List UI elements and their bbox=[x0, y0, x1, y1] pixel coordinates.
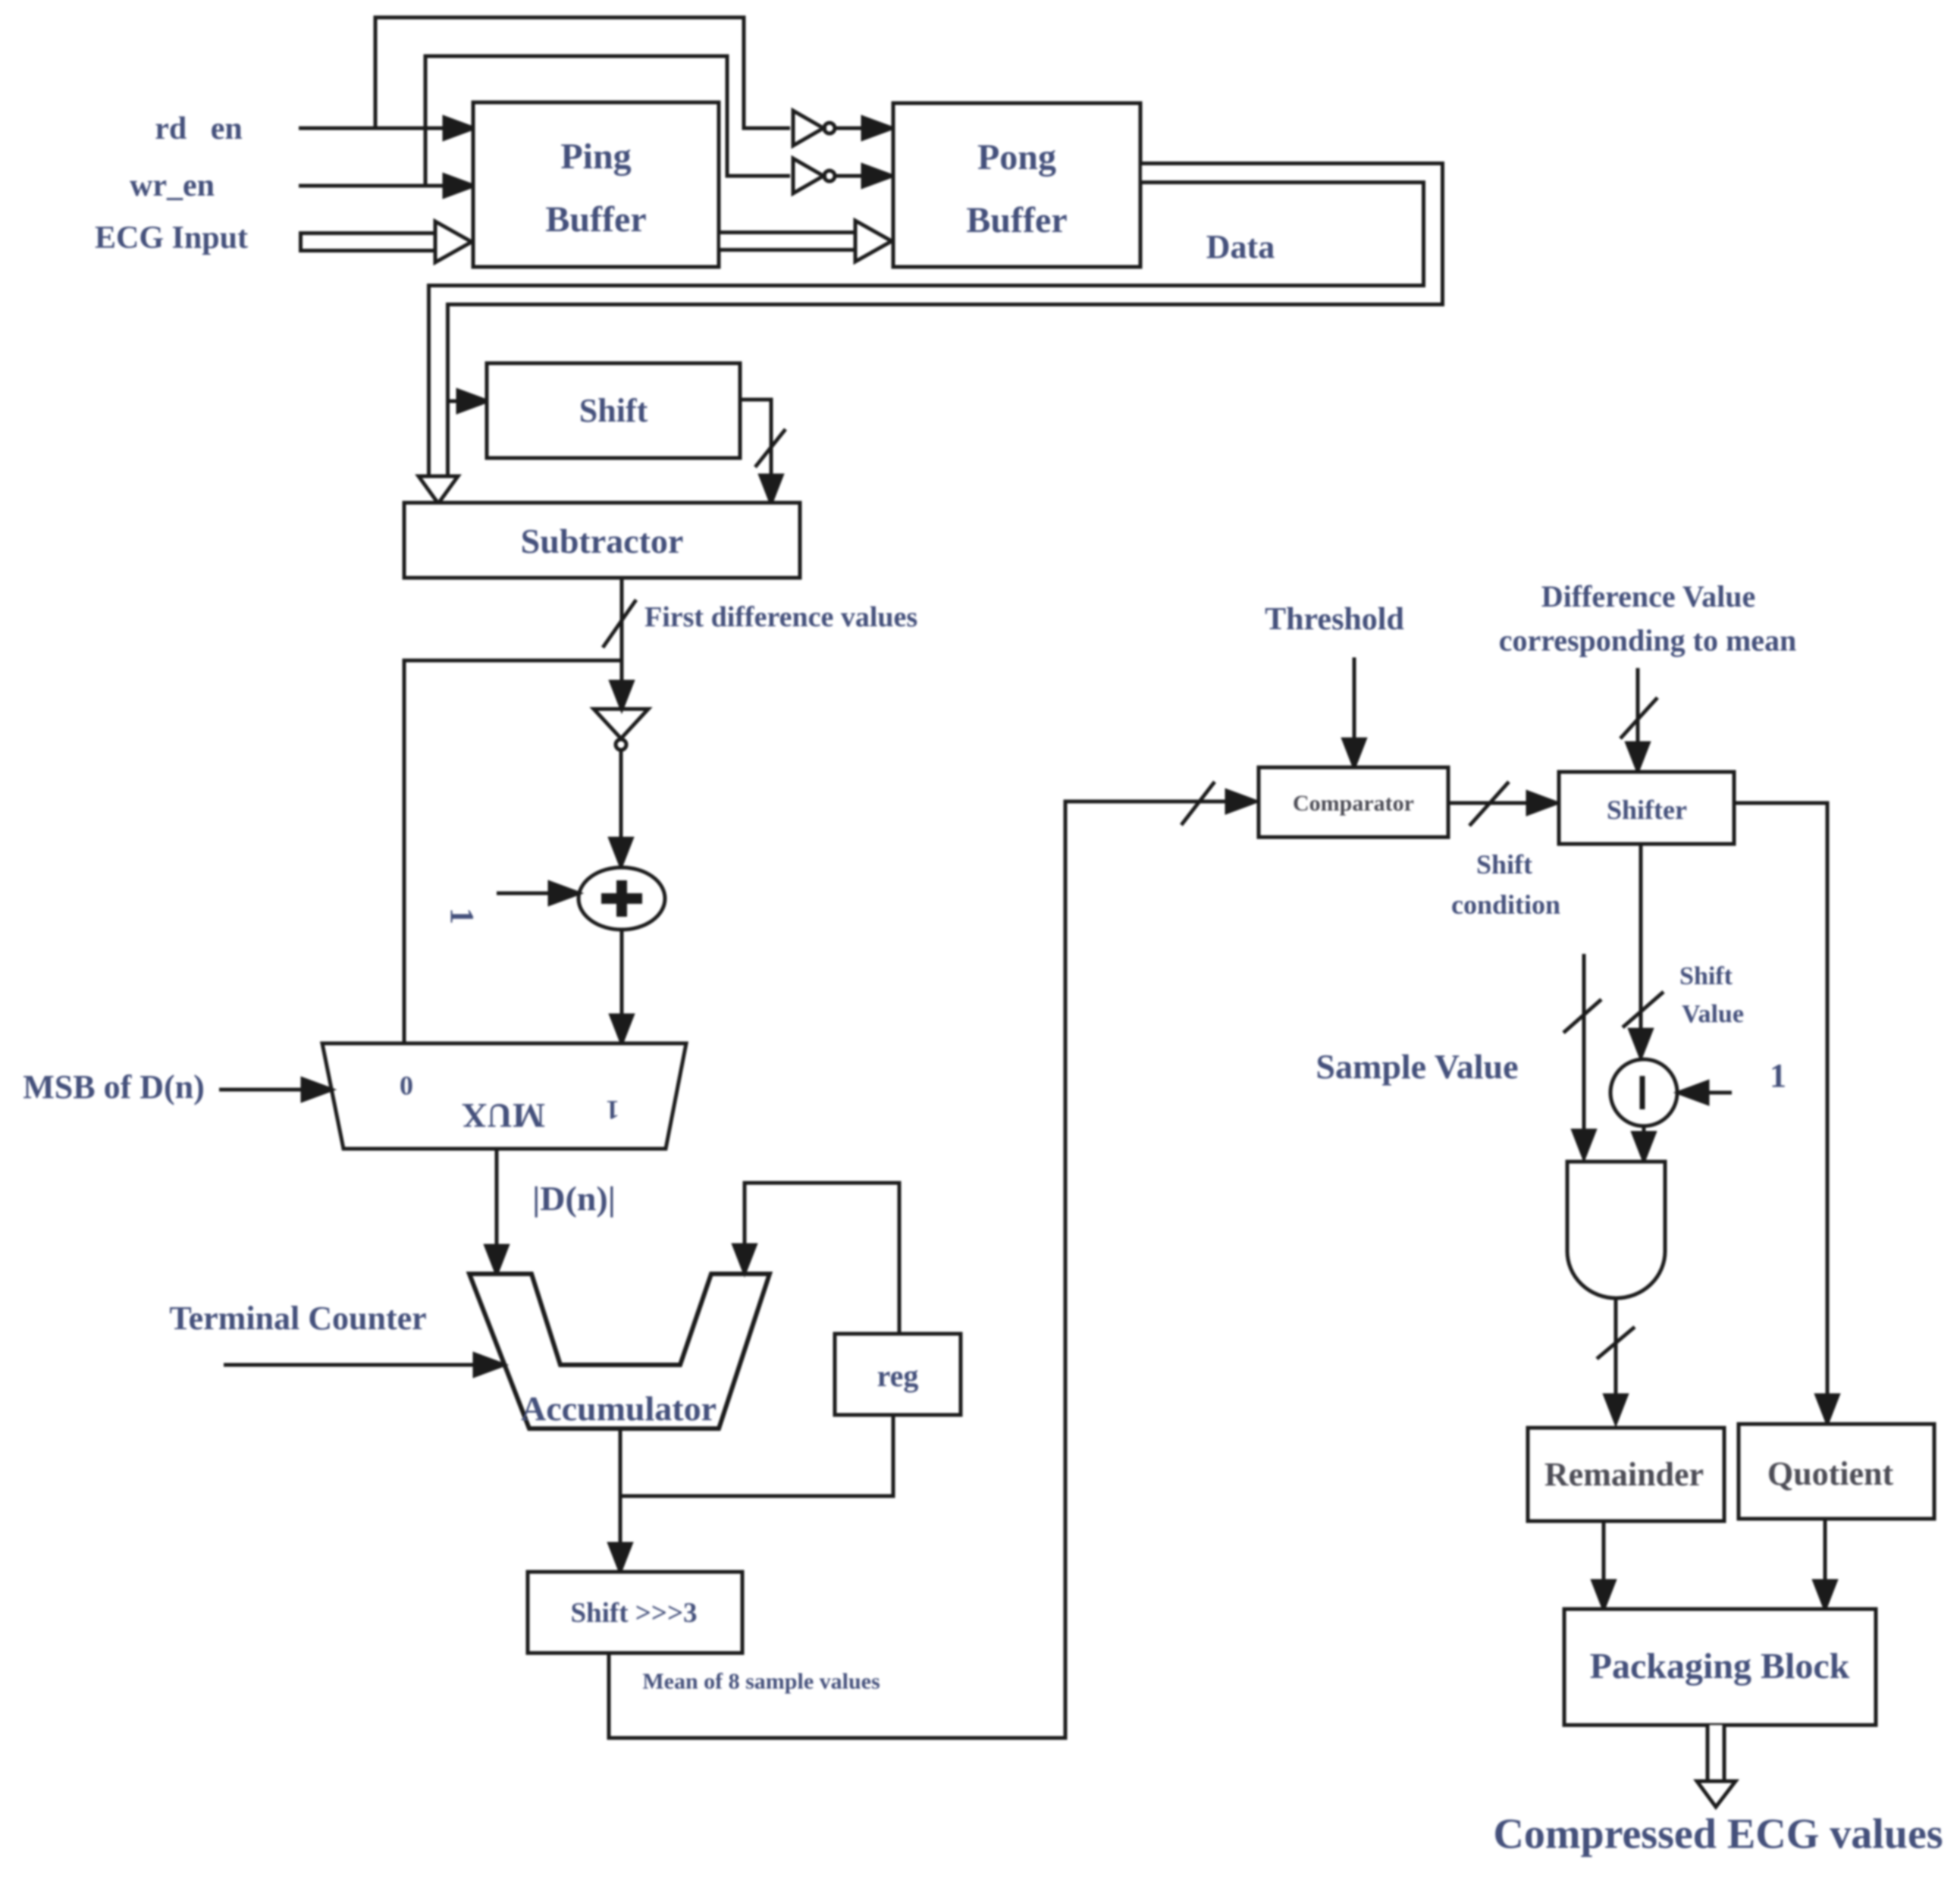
wire inverter3 to adder bbox=[610, 750, 632, 866]
wire Threshold into Comparator bbox=[1344, 657, 1365, 767]
svg-text:Shifter: Shifter bbox=[1607, 795, 1687, 825]
svg-text:Threshold: Threshold bbox=[1265, 602, 1404, 637]
inverter U1 bbox=[793, 111, 835, 146]
svg-text:Buffer: Buffer bbox=[545, 199, 646, 240]
svg-text:Terminal Counter: Terminal Counter bbox=[169, 1300, 426, 1337]
wire MSB select into MUX bbox=[219, 1079, 331, 1100]
svg-text:Sample Value: Sample Value bbox=[1316, 1047, 1518, 1086]
wire Subtractor output (first difference values) bbox=[603, 578, 636, 709]
svg-text:0: 0 bbox=[400, 1071, 413, 1101]
block Shift bbox=[487, 363, 740, 458]
svg-text:Mean of 8 sample values: Mean of 8 sample values bbox=[642, 1669, 880, 1694]
svg-text:First difference values: First difference values bbox=[644, 601, 917, 633]
block Subtractor bbox=[404, 503, 800, 578]
wire adder to MUX input 1 bbox=[611, 930, 632, 1043]
inverter U2 bbox=[793, 158, 835, 193]
svg-text:Accumulator: Accumulator bbox=[521, 1389, 717, 1428]
svg-text:Difference Value: Difference Value bbox=[1541, 579, 1756, 613]
wire inverter1 to Pong Buffer bbox=[835, 118, 892, 139]
wire mean of samples to Comparator bbox=[609, 782, 1256, 1738]
wire inverter2 to Pong Buffer bbox=[835, 165, 892, 187]
svg-text:|D(n)|: |D(n)| bbox=[532, 1179, 616, 1218]
wire rd_en into Ping Buffer bbox=[299, 118, 473, 139]
svg-text:Shift >>>3: Shift >>>3 bbox=[570, 1598, 697, 1629]
wire MUX output |D(n)| to accumulator bbox=[486, 1149, 507, 1273]
wire Quotient to Packaging Block bbox=[1814, 1519, 1836, 1608]
svg-text:MSB of D(n): MSB of D(n) bbox=[23, 1068, 205, 1106]
register reg bbox=[835, 1334, 961, 1415]
svg-text:wr_en: wr_en bbox=[130, 168, 215, 203]
block Ping Buffer bbox=[473, 102, 719, 267]
svg-text:Subtractor: Subtractor bbox=[521, 522, 684, 560]
block Comparator bbox=[1259, 767, 1448, 837]
svg-text:1: 1 bbox=[606, 1095, 619, 1125]
label Shift Value bbox=[1679, 962, 1744, 1028]
wire sample value to AND gate bbox=[1563, 954, 1601, 1158]
svg-text:MUX: MUX bbox=[462, 1096, 545, 1135]
wire reg feedback into accumulator right input bbox=[734, 1183, 899, 1334]
bus Data (Pong output wrapping down-left to Subtractor) bbox=[419, 173, 1433, 503]
svg-text:Packaging Block: Packaging Block bbox=[1590, 1646, 1850, 1686]
accumulator ACC bbox=[469, 1274, 770, 1429]
inverter U3 (negate path) bbox=[594, 709, 648, 750]
svg-text:Shift: Shift bbox=[1476, 849, 1532, 880]
bus Ping Buffer to Pong Buffer bbox=[719, 221, 892, 262]
block Shifter bbox=[1559, 772, 1734, 844]
wire AND gate to Remainder bbox=[1597, 1298, 1635, 1422]
and-gate G1 bbox=[1567, 1162, 1665, 1298]
svg-text:Data: Data bbox=[1206, 228, 1275, 265]
wire bus branch to Shift bbox=[447, 391, 487, 412]
wire reg bottom to accumulator output junction bbox=[620, 1415, 893, 1496]
bus ECG Input into Ping Buffer bbox=[299, 221, 472, 262]
svg-text:Compressed ECG values: Compressed ECG values bbox=[1493, 1811, 1943, 1858]
block Packaging Block bbox=[1564, 1609, 1876, 1725]
svg-text:Buffer: Buffer bbox=[966, 200, 1067, 240]
svg-text:rd en: rd en bbox=[155, 111, 243, 146]
block Shift >>>3 bbox=[528, 1572, 742, 1653]
bus compressed output bbox=[1697, 1725, 1736, 1807]
svg-text:Quotient: Quotient bbox=[1767, 1455, 1894, 1492]
wire difference value into Shifter bbox=[1620, 668, 1657, 770]
wire inner feedback loop (wr_en to inverter2) bbox=[425, 56, 790, 186]
wire Terminal Counter into accumulator bbox=[224, 1354, 503, 1375]
svg-text:Value: Value bbox=[1682, 1000, 1744, 1028]
block Quotient bbox=[1739, 1424, 1934, 1519]
adder A1 bbox=[579, 867, 665, 930]
svg-text:Comparator: Comparator bbox=[1293, 791, 1414, 816]
svg-text:Shift: Shift bbox=[1679, 962, 1733, 990]
wire Shifter right output to Quotient bbox=[1734, 803, 1838, 1422]
wire divider to AND gate bbox=[1633, 1126, 1654, 1160]
block Pong Buffer bbox=[893, 103, 1140, 267]
svg-text:corresponding to mean: corresponding to mean bbox=[1499, 623, 1797, 657]
mux MUX1 bbox=[322, 1043, 686, 1149]
svg-text:Ping: Ping bbox=[560, 136, 631, 177]
wire Shifter to divider (shift value) bbox=[1623, 844, 1664, 1057]
wire wr_en into Ping Buffer bbox=[299, 175, 473, 196]
svg-text:ECG Input: ECG Input bbox=[95, 221, 248, 256]
label Difference Value corresponding to mean bbox=[1499, 579, 1797, 657]
svg-text:Pong: Pong bbox=[977, 137, 1056, 177]
svg-text:1: 1 bbox=[444, 908, 481, 924]
wire Remainder to Packaging Block bbox=[1593, 1521, 1614, 1608]
label Shift condition bbox=[1451, 849, 1560, 920]
wire Shift to Subtractor bbox=[740, 400, 786, 503]
wire accumulator to Shift>>>3 bbox=[610, 1429, 631, 1571]
divider D1 bbox=[1610, 1059, 1677, 1126]
wire constant 1 to adder bbox=[497, 883, 579, 904]
wire outer feedback loop (rd_en to inverter1) bbox=[375, 17, 790, 128]
svg-text:1: 1 bbox=[1770, 1057, 1786, 1094]
svg-text:Shift: Shift bbox=[579, 392, 648, 429]
wire constant 1 to divider bbox=[1679, 1082, 1732, 1103]
wire Comparator to Shifter (shift condition) bbox=[1448, 782, 1557, 826]
svg-text:Remainder: Remainder bbox=[1544, 1456, 1704, 1493]
block Remainder bbox=[1528, 1428, 1724, 1521]
svg-text:condition: condition bbox=[1451, 889, 1560, 920]
svg-text:reg: reg bbox=[877, 1359, 919, 1393]
wire branch to MUX input 0 bbox=[404, 660, 622, 1043]
